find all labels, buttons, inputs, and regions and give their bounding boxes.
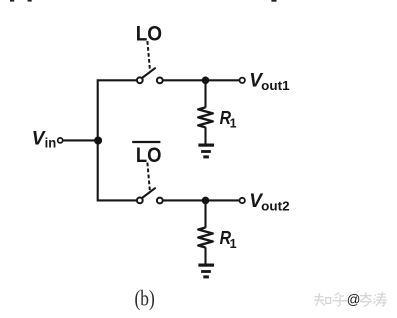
terminal circle Vout1 xyxy=(240,78,245,83)
cropped text remnant top-left 1 xyxy=(10,0,14,2)
label R1 upper xyxy=(220,107,237,131)
node B junction dot top xyxy=(202,77,210,85)
resistor R1a zigzag xyxy=(198,107,213,127)
svg-text:LO: LO xyxy=(136,22,162,45)
wire switch S1 to Vout1 terminal xyxy=(163,79,239,81)
wire node B down to resistor R1a xyxy=(204,80,206,107)
terminal circle Vin xyxy=(58,138,63,143)
svg-text:1: 1 xyxy=(230,117,237,131)
svg-text:@: @ xyxy=(347,292,361,307)
watermark zhihu @litao xyxy=(314,292,386,307)
node A junction dot on input xyxy=(94,137,102,145)
ground symbol lower xyxy=(198,265,214,277)
wire switch S2 to Vout2 terminal xyxy=(163,199,239,201)
label LO-bar overline xyxy=(132,141,160,143)
cropped text remnant top-middle xyxy=(271,0,276,2)
wire node C down to resistor R1b xyxy=(204,200,206,227)
ground symbol upper xyxy=(198,145,214,157)
svg-text:out1: out1 xyxy=(261,79,289,93)
svg-text:LO: LO xyxy=(136,144,162,167)
wire resistor R1a to ground xyxy=(204,127,206,144)
node C junction dot bottom xyxy=(202,197,210,205)
label Vin xyxy=(32,129,56,151)
svg-text:V: V xyxy=(32,129,46,150)
switch S1 right contact xyxy=(157,78,163,84)
svg-text:in: in xyxy=(45,135,57,150)
wire left rail from switch S1 down to switch S2 xyxy=(98,80,137,200)
wire resistor R1b to ground xyxy=(204,247,206,263)
wire input from Vin terminal to node A xyxy=(63,139,98,141)
label Vout2 xyxy=(249,191,289,213)
switch S1 left contact xyxy=(137,77,143,83)
switch S2 arm xyxy=(143,188,156,197)
svg-text:out2: out2 xyxy=(261,199,289,213)
switch S2 left contact xyxy=(137,198,143,204)
svg-text:(b): (b) xyxy=(135,286,155,311)
switch S2 right contact xyxy=(157,198,163,204)
switch S1 arm xyxy=(143,68,156,77)
svg-text:1: 1 xyxy=(230,237,237,251)
cropped text remnant top-left 2 xyxy=(28,0,32,2)
terminal circle Vout2 xyxy=(240,198,245,203)
label Vout1 xyxy=(249,71,289,93)
dashed control line to switch S1 xyxy=(147,41,149,69)
label R1 lower xyxy=(220,227,237,251)
resistor R1b zigzag xyxy=(198,228,213,248)
dashed control line to switch S2 xyxy=(147,163,149,191)
